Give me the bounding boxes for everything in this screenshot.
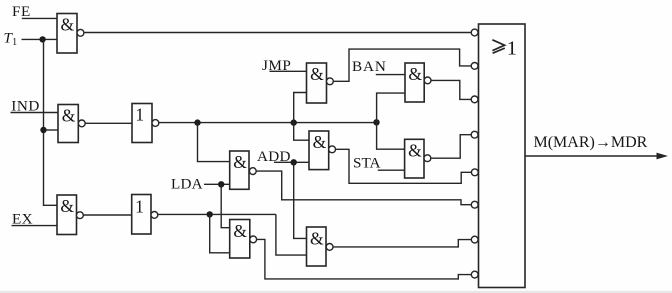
junction EX line dot — [207, 211, 213, 217]
bubble OR input 5 — [471, 169, 478, 176]
and-gate U9 — [405, 139, 424, 178]
wire bus dot3 to U9 input1 — [377, 122, 405, 149]
and-gate U2 — [58, 105, 78, 143]
svg-text:1: 1 — [507, 37, 517, 59]
wire bus dot1 to U10 input1 — [198, 123, 230, 162]
and-gate U12 — [307, 227, 327, 266]
bubble OR input 4 — [471, 131, 478, 138]
and-gate U8 — [309, 131, 329, 170]
bubble OR input 1 — [471, 29, 478, 36]
wire U7 to OR input 3 — [431, 80, 471, 99]
wire LDA to U11 input1 — [221, 184, 230, 227]
bubble OR input 2 — [471, 63, 478, 70]
scan shadow bottom — [0, 291, 672, 293]
bubble OR input 8 — [471, 271, 478, 278]
wire FE input — [22, 17, 57, 19]
wire bus dot3 to U7 input2 — [377, 93, 405, 122]
wire EX input — [12, 225, 58, 227]
wire U12 to OR input 7 — [333, 240, 471, 247]
svg-text:&: & — [60, 196, 74, 216]
bubble B2 output — [151, 212, 158, 219]
wire U10 to OR input 6 — [256, 171, 471, 205]
wire STA input — [378, 169, 405, 171]
wire output arrow — [525, 155, 659, 157]
svg-text:&: & — [233, 152, 247, 172]
wire U4 to B2 — [83, 214, 131, 216]
junction LDA dot — [218, 181, 224, 187]
svg-text:&: & — [310, 64, 324, 84]
wire JMP input — [270, 70, 307, 72]
wire ADD dot to U12 input1 — [294, 162, 307, 238]
wire IND-T1 bus — [159, 122, 377, 124]
bubble OR input 3 — [471, 96, 478, 103]
and-gate U11 — [230, 220, 250, 259]
bubble U1 output — [77, 29, 84, 36]
wire ADD input — [274, 161, 309, 163]
and-gate U10 — [230, 151, 249, 189]
bubble U2 output — [78, 120, 85, 127]
wire EX-T1 line — [158, 213, 276, 215]
svg-text:FE: FE — [12, 3, 31, 20]
svg-text:STA: STA — [353, 155, 381, 172]
bubble U10 output — [249, 168, 256, 175]
wire bus dot2 to U8 input1 — [294, 123, 309, 141]
bubble U8 output — [329, 146, 336, 153]
wire T1 input — [22, 38, 58, 40]
wire U2 to B1 — [85, 122, 132, 124]
bubble OR input 7 — [471, 236, 478, 243]
svg-text:1: 1 — [135, 196, 144, 216]
bubble U9 output — [424, 155, 431, 162]
wire bus dot2 to U6 input2 — [294, 93, 307, 123]
wire U8 to OR input 5 — [336, 149, 472, 183]
svg-text:&: & — [233, 221, 247, 241]
svg-text:BAN: BAN — [352, 58, 387, 75]
svg-text:M(MAR)→MDR: M(MAR)→MDR — [534, 134, 648, 151]
bubble U7 output — [424, 77, 431, 84]
wire T1 vertical to EX gate — [44, 39, 58, 205]
junction bus dot2 — [291, 119, 297, 125]
svg-text:&: & — [61, 15, 75, 35]
or-gate U13 — [479, 24, 526, 288]
svg-text:LDA: LDA — [171, 176, 203, 193]
bubble U11 output — [250, 236, 257, 243]
and-gate U7 — [405, 63, 424, 102]
inverter B2 — [132, 195, 151, 235]
svg-text:&: & — [310, 228, 324, 248]
inverter B1 — [132, 104, 152, 143]
svg-text:&: & — [62, 105, 76, 125]
bubble B1 output — [152, 120, 159, 127]
and-gate U6 — [307, 63, 327, 103]
svg-text:T1: T1 — [4, 30, 18, 48]
svg-text:1: 1 — [135, 105, 144, 125]
junction bus dot3 — [373, 119, 379, 125]
wire U6 to OR input 2 — [333, 49, 471, 81]
and-gate U1 — [57, 14, 77, 54]
wire EX dot to U11 input2 — [210, 214, 230, 252]
bubble OR input 6 — [471, 201, 478, 208]
junction bus dot1 — [194, 119, 200, 125]
svg-text:&: & — [313, 132, 327, 152]
wire IND input — [11, 112, 59, 114]
junction T1-IND branch — [40, 127, 46, 133]
wire U1 to OR input 1 — [84, 32, 471, 34]
junction T1 — [39, 36, 45, 42]
wire LDA input — [204, 183, 230, 185]
bubble U6 output — [327, 78, 334, 85]
wire EX line to U12 input2 — [276, 214, 307, 255]
wire U11 to OR input 8 — [257, 239, 472, 279]
svg-text:&: & — [408, 140, 422, 160]
wire U9 to OR input 4 — [431, 135, 471, 159]
and-gate U4 — [57, 195, 77, 235]
junction ADD dot — [291, 159, 297, 165]
arrowhead output — [657, 153, 669, 160]
svg-text:IND: IND — [11, 97, 40, 114]
wire BAN input — [376, 74, 405, 76]
bubble U12 output — [326, 244, 333, 251]
wire T1 branch to IND gate — [44, 129, 59, 131]
svg-text:&: & — [408, 64, 422, 84]
bubble U4 output — [77, 212, 84, 219]
svg-text:EX: EX — [12, 210, 33, 227]
